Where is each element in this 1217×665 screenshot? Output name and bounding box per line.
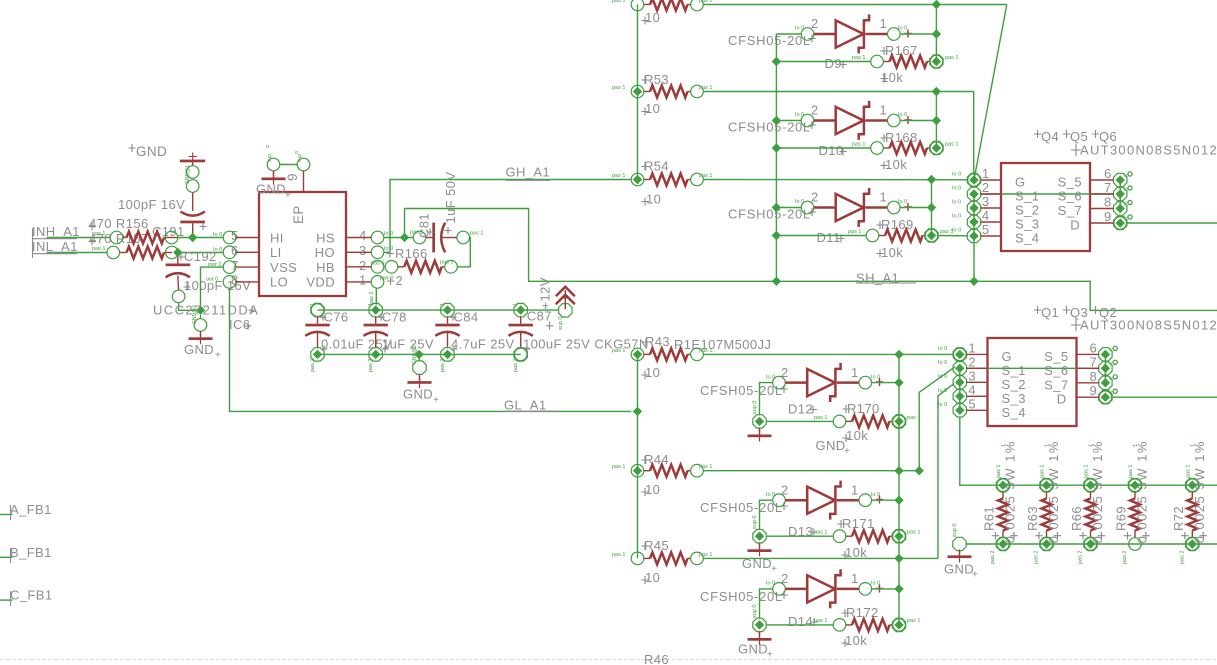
svg-text:S_4: S_4 [1002,405,1026,420]
svg-text:10k: 10k [881,245,903,260]
junction R45 out gate node [894,554,903,563]
svg-text:0.0025 3W 1%: 0.0025 3W 1% [1046,440,1061,543]
svg-text:0.0025 3W 1%: 0.0025 3W 1% [1003,440,1018,543]
svg-text:pas 0: pas 0 [371,260,384,266]
svg-text:1: 1 [880,16,888,31]
ground GND at D12/R170 [748,401,851,457]
wire gate bus low side [637,354,639,558]
svg-text:Io 0: Io 0 [952,186,961,192]
transistor Q4 pin 7 S_6 [1058,180,1132,204]
diode D14 CFSH05-20L [700,569,899,629]
svg-text:1: 1 [851,483,859,498]
svg-text:sup: sup [267,154,273,162]
transistor Q1 pin 2 S_1 [938,354,1026,378]
svg-text:4: 4 [982,208,990,223]
svg-text:Io: Io [1124,187,1129,193]
svg-text:Io: Io [1109,347,1114,353]
svg-text:C87: C87 [527,309,552,324]
svg-text:D12: D12 [788,402,813,417]
wire D9 anode drop [775,34,777,281]
transistor Q1 Q3 Q2 labels [1034,305,1217,333]
svg-text:sup 0: sup 0 [752,401,758,414]
svg-text:D14: D14 [788,614,813,629]
svg-text:pas 1: pas 1 [1185,465,1191,478]
svg-text:10k: 10k [846,428,868,443]
svg-text:Io 0: Io 0 [898,26,907,32]
capacitor C78 [364,303,434,372]
svg-text:2: 2 [396,273,404,288]
junction SH_A1 at Q4 sources [969,277,978,286]
transistor Q1 pin 7 S_6 [1044,354,1117,378]
svg-text:sup 0: sup 0 [952,524,958,537]
junction R53 left [633,87,642,96]
svg-text:S_2: S_2 [1002,377,1026,392]
IC6 pin 4 HS [316,228,393,245]
svg-text:pwr 0: pwr 0 [208,262,221,268]
svg-text:S_7: S_7 [1058,203,1082,218]
svg-text:R66: R66 [1069,506,1084,531]
svg-text:UCC27211DDA: UCC27211DDA [153,303,259,318]
svg-text:VDD: VDD [306,275,335,290]
junction R54 out [927,175,936,184]
ground GND at shunt rail [944,524,978,581]
svg-text:6: 6 [1104,166,1112,181]
svg-text:2: 2 [968,354,976,369]
svg-text:1: 1 [968,340,976,355]
svg-text:pas 1: pas 1 [699,552,712,558]
svg-text:pas 1: pas 1 [612,464,625,470]
junction GL_A1 tap [633,407,642,416]
capacitor C84 [435,303,514,372]
svg-text:INL_A1: INL_A1 [32,239,78,254]
wire C_FB1 stub [0,588,52,606]
svg-text:pas 2: pas 2 [1179,551,1185,564]
svg-text:pas 2: pas 2 [440,359,446,372]
junction R43 left [633,350,642,359]
junction R43 out [894,350,903,359]
svg-text:2: 2 [359,258,367,273]
resistor R168 [776,130,958,172]
svg-text:pas 1: pas 1 [1040,465,1046,478]
diode D9 CFSH05-20L [728,14,936,71]
wire R53 node to gate [973,92,975,176]
svg-text:1: 1 [1190,444,1196,447]
IC6 pin 6 LI [213,243,282,260]
svg-text:1: 1 [1133,444,1139,447]
svg-text:Io 0: Io 0 [938,388,947,394]
svg-text:G: G [1015,175,1026,190]
svg-text:pas 1: pas 1 [996,465,1002,478]
ground GND label top-left [129,144,168,159]
svg-text:Io 0: Io 0 [898,112,907,118]
svg-text:0.0025 3W 1%: 0.0025 3W 1% [1135,440,1150,543]
diode D12 CFSH05-20L [700,363,899,417]
capacitor C87 [509,303,649,372]
svg-text:pas 1: pas 1 [699,85,712,91]
wire SH_A1 run [405,209,1217,311]
svg-text:pas 1: pas 1 [440,260,453,266]
junction R53 out [932,87,941,96]
svg-text:D9: D9 [825,56,842,71]
svg-text:S_1: S_1 [1002,363,1026,378]
transistor Q1 pin 9 D [1057,383,1118,407]
junction R66 bottom [1086,539,1095,548]
node GND pin at C191 top [185,165,199,184]
junction D14 cathode [894,584,903,593]
resistor R61 [982,440,1018,564]
junction D11-R169 left tie [772,231,781,240]
svg-text:S_2: S_2 [1015,203,1039,218]
wire R44 node to Q1 pin2 [919,367,955,471]
svg-text:pas 1: pas 1 [945,55,958,61]
svg-text:100uF 25V CKG57N: 100uF 25V CKG57N [523,337,649,352]
svg-text:Io: Io [1124,216,1129,222]
resistor R166 [385,246,457,288]
junction R63 bottom [1042,539,1051,548]
svg-text:pas 1: pas 1 [410,230,423,236]
junction R171 right [894,532,903,541]
svg-text:HB: HB [316,260,335,275]
svg-text:1: 1 [359,273,367,288]
svg-text:C84: C84 [454,310,479,325]
svg-text:5: 5 [968,396,976,411]
resistor R44 [612,452,919,497]
svg-text:pas 2: pas 2 [1078,551,1084,564]
IC6 pin 1 VDD [306,273,393,290]
svg-text:C76: C76 [324,310,349,325]
sheet frame bottom edge [0,659,1217,661]
junction VSS-GND node [196,306,205,315]
svg-text:10: 10 [645,10,660,25]
svg-text:R72: R72 [1171,506,1186,531]
svg-text:pas 2: pas 2 [310,359,316,372]
wire Q4 S_1 to S_6 cross [980,193,1113,195]
transistor Q4 pin 5 S_4 [952,222,1039,246]
resistor R63 [1025,440,1061,564]
label IC6 [229,317,252,332]
svg-text:Io: Io [1109,361,1114,367]
svg-text:4: 4 [968,382,976,397]
svg-text:2: 2 [811,190,819,205]
transistor Q4 pin 1 G [952,166,1026,190]
svg-text:pas 1: pas 1 [612,552,625,558]
svg-text:GND: GND [816,438,846,453]
svg-text:3: 3 [968,368,976,383]
svg-text:C78: C78 [382,310,407,325]
svg-text:1: 1 [368,303,374,306]
transistor Q4 pin 8 S_7 [1058,195,1132,219]
svg-text:+12V: +12V [538,277,553,309]
svg-text:7: 7 [1090,354,1098,369]
wire A_FB1 stub [0,502,52,520]
ground GND at D14/R172 [738,605,773,661]
svg-text:4: 4 [359,228,367,243]
junction R61 bottom [998,539,1007,548]
svg-text:R69: R69 [1114,506,1129,531]
label UCC27211DDA [153,303,259,318]
junction R168 right [932,143,941,152]
svg-text:Q4: Q4 [1041,129,1059,144]
svg-text:1: 1 [982,166,990,181]
junction R66 top [1086,481,1095,490]
resistor R172 [766,605,921,648]
svg-text:pas 1: pas 1 [814,618,827,624]
transistor Q4 pin 6 S_5 [1058,166,1132,190]
junction R52 out [932,0,941,9]
svg-text:D: D [1070,218,1080,233]
wire VSS to ground [201,267,224,319]
svg-text:B_FB1: B_FB1 [10,545,52,560]
svg-text:HO: HO [315,245,335,260]
svg-text:pas 1: pas 1 [1128,465,1134,478]
IC6 pin 2 HB [316,258,384,275]
op-amp IC6 UCC27211DDA body [259,192,346,296]
transistor Q1 pin 4 S_3 [938,382,1026,406]
svg-text:S_4: S_4 [1015,231,1039,246]
svg-text:pas 1: pas 1 [699,464,712,470]
svg-text:pas 1: pas 1 [1084,465,1090,478]
svg-text:Io: Io [1109,376,1114,382]
svg-text:pas 2: pas 2 [1122,551,1128,564]
wire shunt rail bottom [966,543,1217,545]
svg-text:1: 1 [310,303,316,306]
svg-text:GL_A1: GL_A1 [504,398,546,413]
junction SH_A1 at anode bus [772,277,781,286]
wire cluster1 vertical [935,5,937,62]
ground GND below cap bank [403,345,439,406]
svg-text:S_6: S_6 [1058,189,1082,204]
svg-text:7: 7 [1104,180,1112,195]
svg-text:GND: GND [944,562,974,577]
transistor Q1 pin 6 S_5 [1044,340,1117,364]
junction R167 right [932,57,941,66]
svg-text:1: 1 [1001,444,1007,447]
svg-text:pas 1: pas 1 [699,173,712,179]
svg-text:CFSH05-20L: CFSH05-20L [700,383,783,398]
svg-text:Q1: Q1 [1041,305,1059,320]
svg-text:pas 1: pas 1 [612,348,625,354]
svg-text:out 0: out 0 [206,277,218,283]
svg-text:In 0: In 0 [213,232,222,238]
svg-text:S_7: S_7 [1044,377,1068,392]
junction R170 right [894,417,903,426]
svg-text:pas 1: pas 1 [92,246,105,252]
junction R169 right [927,231,936,240]
transistor Q1 pin 5 S_4 [938,396,1026,420]
diode D10 CFSH05-20L [728,101,936,158]
svg-text:Io 0: Io 0 [898,199,907,205]
svg-text:pas 1: pas 1 [907,415,920,421]
capacitor C81 [410,172,483,267]
svg-text:1: 1 [851,365,859,380]
resistor R171 [766,516,921,560]
svg-text:Io 0: Io 0 [384,246,393,252]
wire HO to GH_A1 [384,165,631,253]
svg-text:S_3: S_3 [1002,391,1026,406]
svg-text:pas 1: pas 1 [907,530,920,536]
svg-text:LO: LO [270,275,288,290]
junction D11 cathode [927,203,936,212]
svg-text:Io: Io [1124,173,1129,179]
svg-text:1: 1 [851,571,859,586]
svg-text:C_FB1: C_FB1 [10,588,52,603]
wire Q1 S_1 to S_6 cross [966,367,1099,369]
svg-text:AUT300N08S5N012A: AUT300N08S5N012A [1080,318,1217,333]
svg-text:10: 10 [645,101,660,116]
svg-text:+: + [433,395,439,406]
resistor R52 [612,0,1007,25]
junction D13 cathode [894,496,903,505]
label resistor R157 value [88,231,148,246]
svg-text:LI: LI [270,245,282,260]
svg-text:8: 8 [1090,369,1098,384]
junction R44 out gate node [894,466,903,475]
svg-text:1: 1 [880,103,888,118]
svg-text:S_5: S_5 [1044,349,1068,364]
wire INL_A1 stub [32,239,107,258]
svg-text:GND: GND [136,144,167,159]
IC6 pin 5 HI [213,228,284,245]
svg-text:D10: D10 [819,143,844,158]
wire low cluster vertical (gate node) [898,354,900,624]
svg-text:pas 1: pas 1 [699,348,712,354]
wire cap rail bottom [318,353,521,355]
svg-text:0.0025 3W 1%: 0.0025 3W 1% [1090,440,1105,543]
junction R63 top [1042,481,1051,490]
transistor Q1 pin 3 S_2 [938,368,1026,392]
svg-text:2: 2 [811,16,819,31]
resistor R45 [612,538,938,585]
svg-text:pas 1: pas 1 [612,173,625,179]
pin 9 top [266,144,310,192]
resistor R157 [92,246,223,259]
svg-text:VSS: VSS [270,260,297,275]
resistor R54 [612,159,968,207]
svg-text:IC6: IC6 [229,317,250,332]
svg-text:0.0025 3W 1%: 0.0025 3W 1% [1192,440,1207,543]
svg-text:R63: R63 [1025,506,1040,531]
svg-text:GND: GND [403,387,433,402]
wire GL_A1 from LO pin [230,288,632,412]
svg-text:sup: sup [297,154,303,162]
ground GND at D13/R171 [742,516,777,575]
junction R69 top [1130,481,1139,490]
wire Q1 S_5..S_7 tie [1104,354,1106,382]
svg-text:1: 1 [513,303,519,306]
junction D12 cathode [894,378,903,387]
resistor R43 [612,334,954,380]
svg-text:6: 6 [1090,340,1098,355]
svg-text:D: D [1057,392,1067,407]
wire Q4 sources to SH_A1 [973,236,975,281]
svg-text:1uF 50V: 1uF 50V [443,172,458,224]
transistor Q4 body [1001,163,1090,251]
svg-text:CFSH05-20L: CFSH05-20L [700,500,783,515]
svg-text:9: 9 [285,173,300,181]
svg-text:GND: GND [256,182,286,197]
transistor Q4 pin 4 S_3 [952,208,1039,232]
svg-text:sup 0: sup 0 [752,516,758,529]
wire diagonal to Q4 gate [974,5,1007,181]
svg-text:10k: 10k [845,633,867,648]
svg-text:Io 0: Io 0 [938,402,947,408]
svg-text:4.7uF 25V: 4.7uF 25V [451,337,515,352]
svg-text:Io 0: Io 0 [952,228,961,234]
svg-text:pas 1: pas 1 [92,231,105,237]
svg-text:pas 1: pas 1 [907,618,920,624]
IC6 pin 8 LO [206,273,288,290]
svg-text:R1E107M500JJ: R1E107M500JJ [674,337,771,352]
wire HS to SH node [384,237,413,239]
svg-text:2: 2 [811,103,819,118]
svg-text:pas 1: pas 1 [470,231,483,237]
resistor R72 [1171,440,1207,564]
svg-text:HS: HS [316,230,335,245]
svg-text:Io 0: Io 0 [952,172,961,178]
resistor R170 [766,401,921,443]
wire Q4 drain out [1127,222,1217,224]
svg-text:1: 1 [1089,444,1095,447]
wire shunt rail top [997,484,1217,486]
svg-text:pas 2: pas 2 [1034,551,1040,564]
svg-text:1uF 25V: 1uF 25V [382,337,434,352]
svg-text:pas 1: pas 1 [699,0,712,4]
svg-text:R61: R61 [982,506,997,531]
wire R45 node to Q1 pin3 [938,384,954,559]
svg-text:8: 8 [1104,195,1112,210]
svg-text:pas 1: pas 1 [612,85,625,91]
svg-text:10k: 10k [885,157,907,172]
svg-text:CFSH05-20L: CFSH05-20L [728,207,811,222]
svg-text:+: + [285,190,291,201]
transistor Q4 pin 2 S_1 [952,180,1039,204]
wire Q4 S_5..S_7 tie [1119,180,1121,209]
svg-text:CFSH05-20L: CFSH05-20L [728,33,811,48]
wire cluster3 vertical [931,180,933,236]
ground symbol above C191 [180,153,205,167]
svg-text:pas 2: pas 2 [368,359,374,372]
svg-text:INH_A1: INH_A1 [32,224,80,239]
svg-text:Io 0: Io 0 [384,231,393,237]
svg-text:pas 1: pas 1 [848,229,861,235]
junction R44 left [633,466,642,475]
svg-text:GND: GND [184,342,214,357]
svg-text:Io 0: Io 0 [952,200,961,206]
svg-text:GND: GND [738,642,768,657]
svg-text:Io 0: Io 0 [938,360,947,366]
wire cap rail top [318,309,559,311]
svg-text:D11: D11 [817,230,841,245]
svg-text:S_6: S_6 [1044,363,1068,378]
junction R44 out to S1 [915,466,924,475]
svg-text:Io 0: Io 0 [952,214,961,220]
junction D10 anode [772,116,781,125]
svg-text:G: G [1002,349,1013,364]
svg-text:pas 1: pas 1 [852,55,865,61]
transistor Q1 pin 1 G [938,340,1012,364]
power +12V symbol [538,277,575,330]
svg-text:10: 10 [645,482,660,497]
wire INH_A1 stub [32,224,110,243]
wire B_FB1 stub [0,545,52,563]
svg-text:A_FB1: A_FB1 [10,502,52,517]
svg-text:Io 0: Io 0 [938,346,947,352]
transistor Q4 pin 3 S_2 [952,194,1039,218]
resistor R69 [1114,440,1150,564]
svg-text:S_3: S_3 [1015,217,1039,232]
svg-text:9: 9 [1090,383,1098,398]
svg-text:pas 1: pas 1 [945,142,958,148]
